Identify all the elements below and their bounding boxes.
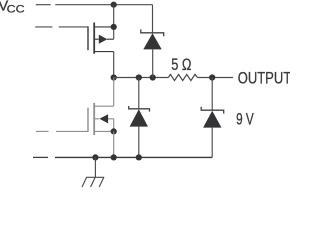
svg-text:9 V: 9 V	[236, 109, 254, 128]
junction: Q2 source/body tie	[111, 128, 117, 134]
diode D2 (clamp to GND)	[130, 109, 148, 126]
transistor Q1 (upper p-channel MOSFET)	[88, 23, 114, 54]
wire: OUTPUT node to D3 cathode	[211, 78, 213, 111]
svg-text:5 Ω: 5 Ω	[171, 55, 191, 74]
junction: ground rail / Q2 source	[111, 154, 117, 160]
wire: resistor to OUTPUT	[198, 77, 234, 79]
wire: Q1 drain down to output node	[113, 52, 115, 78]
junction: output node at Q1/Q2	[111, 74, 117, 80]
resistor R1 5 ohm	[168, 74, 197, 80]
wire: Q1 gate lead	[59, 26, 88, 28]
junction: Q1 source at VCC column	[111, 24, 117, 30]
transistor Q2 (lower n-channel MOSFET, greyed)	[88, 103, 114, 135]
wire: D3 anode to ground rail	[211, 128, 213, 158]
svg-text:OUTPUT: OUTPUT	[238, 68, 290, 87]
wire: Q2 body to source	[113, 119, 115, 132]
wire: D1 anode to output node	[152, 49, 154, 77]
wire: ground rail	[55, 156, 212, 158]
junction: top clamp diode tap	[150, 74, 156, 80]
ground symbol	[82, 157, 104, 187]
wire: VCC rail to D1 cathode	[152, 5, 154, 33]
wire: VCC rail	[55, 4, 152, 6]
net label VCC	[0, 0, 25, 16]
junction: VCC rail / Q1 source column	[111, 2, 117, 8]
wire: Q2 gate lead dash (grey)	[36, 130, 49, 132]
junction: middle clamp diode tap	[136, 74, 142, 80]
diode D2 cathode bar (bent ends)	[129, 106, 150, 112]
junction: ground rail / D2 anode	[136, 154, 142, 160]
wire: output node to D2 cathode	[138, 78, 140, 109]
wire: VCC rail dashed lead	[36, 4, 51, 6]
diode D1 (clamp to VCC)	[143, 33, 161, 49]
zener diode D3 (9 V)	[203, 111, 221, 128]
Q2 body arrow (points left, n-channel)	[99, 114, 108, 123]
junction: ground rail / ground symbol	[92, 154, 98, 160]
Q1 body arrow (points right, p-channel)	[99, 35, 108, 44]
wire: output node row to resistor	[114, 77, 169, 79]
wire: D2 anode to ground rail	[138, 127, 140, 158]
wire: Q2 source to ground rail	[113, 131, 115, 157]
wire: Q1 gate lead dash	[35, 26, 52, 28]
zener diode D3 cathode bar (bent ends)	[201, 107, 224, 114]
wire: output node to Q2 drain	[113, 78, 115, 107]
svg-text:CC: CC	[7, 4, 25, 16]
wire: ground rail dashed lead	[33, 156, 48, 158]
wire: VCC to Q1 source/body	[113, 5, 115, 40]
junction: zener tap at OUTPUT	[209, 74, 215, 80]
diode D1 cathode bar (bent ends)	[141, 29, 164, 36]
wire: Q2 gate lead (grey)	[56, 130, 88, 132]
